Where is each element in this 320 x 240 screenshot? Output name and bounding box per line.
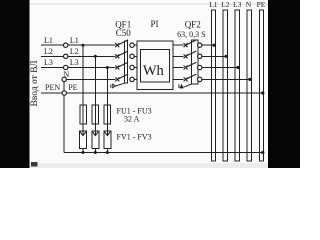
svg-text:PI: PI — [150, 19, 158, 29]
svg-text:L3: L3 — [70, 58, 79, 67]
svg-text:L2: L2 — [221, 0, 230, 9]
svg-text:L1: L1 — [70, 36, 79, 45]
svg-text:PE: PE — [257, 0, 266, 9]
svg-text:L3: L3 — [233, 0, 242, 9]
svg-text:PE: PE — [68, 83, 77, 92]
svg-text:L2: L2 — [70, 47, 79, 56]
svg-text:FV1 - FV3: FV1 - FV3 — [117, 132, 152, 141]
svg-text:N: N — [246, 0, 252, 9]
svg-text:63, 0,3 S: 63, 0,3 S — [177, 30, 205, 39]
svg-text:N: N — [64, 70, 70, 79]
svg-text:L1: L1 — [44, 36, 53, 45]
svg-text:Ввод от ВЛ: Ввод от ВЛ — [30, 60, 40, 107]
svg-text:32 A: 32 A — [124, 114, 140, 123]
svg-text:L2: L2 — [44, 47, 53, 56]
svg-text:L1: L1 — [209, 0, 218, 9]
svg-text:Wh: Wh — [143, 63, 165, 79]
svg-text:L3: L3 — [44, 58, 53, 67]
svg-text:PEN: PEN — [45, 83, 60, 92]
svg-text:C50: C50 — [116, 28, 132, 38]
svg-text:QF2: QF2 — [185, 19, 201, 29]
